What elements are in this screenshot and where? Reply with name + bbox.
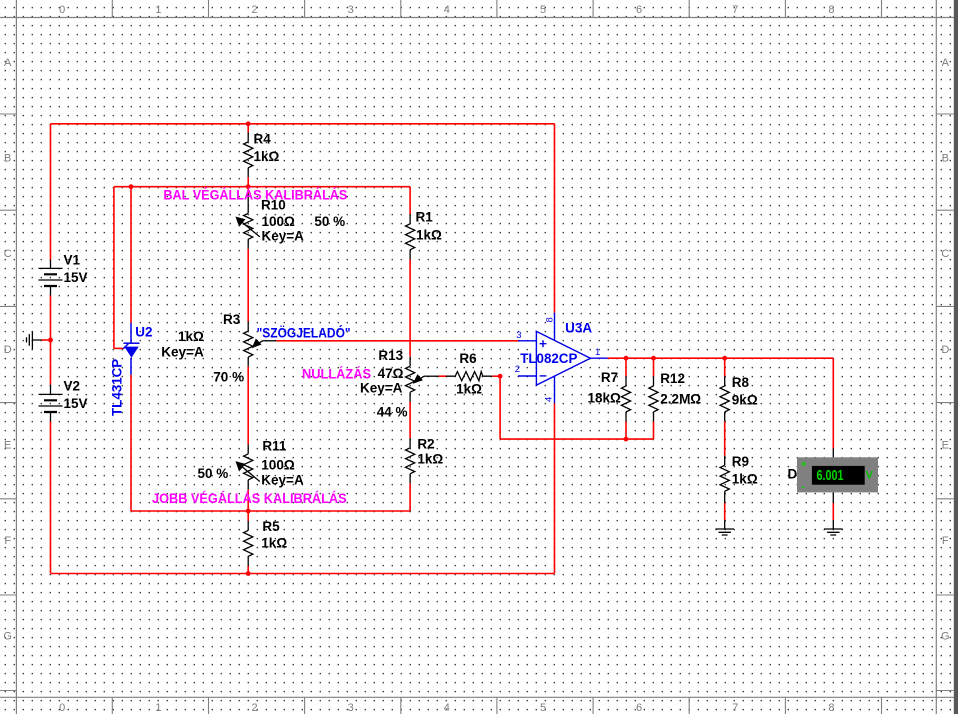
svg-text:4: 4 [444, 702, 450, 714]
svg-text:6: 6 [636, 4, 642, 16]
wire R10 top stub [247, 187, 249, 194]
svg-text:R5: R5 [262, 519, 280, 534]
svg-text:C: C [4, 248, 12, 260]
junction R4 top [246, 121, 251, 126]
svg-text:R11: R11 [262, 439, 287, 454]
multimeter XMM [797, 457, 878, 493]
svg-text:F: F [4, 535, 11, 547]
svg-text:0: 0 [59, 702, 65, 714]
svg-text:6.001: 6.001 [817, 468, 844, 484]
wire R7 top stub [625, 358, 627, 376]
svg-text:A: A [4, 57, 12, 69]
pin 4 stub [554, 376, 556, 403]
svg-text:R9: R9 [732, 454, 749, 469]
junction ground / left rail [48, 338, 53, 343]
svg-text:V1: V1 [64, 253, 81, 268]
potentiometer R3 [244, 322, 277, 367]
svg-text:7: 7 [732, 702, 738, 714]
wire R4 lower stub [247, 177, 249, 186]
wire R7 bottom stub [625, 421, 627, 439]
wire R12 top stub [653, 358, 655, 376]
op-amp U3A [515, 313, 608, 403]
svg-text:NULLÁZÁS: NULLÁZÁS [302, 367, 371, 382]
wire R1 to R13 [409, 259, 411, 356]
wire minus node feedback drop [499, 376, 501, 439]
svg-text:TL082CP: TL082CP [520, 351, 577, 366]
junction feedback / R7 bottom [624, 437, 629, 442]
svg-text:1kΩ: 1kΩ [254, 149, 280, 164]
svg-text:0: 0 [59, 4, 65, 16]
svg-text:8: 8 [544, 317, 555, 322]
svg-text:D: D [941, 344, 949, 356]
svg-text:R8: R8 [732, 375, 750, 390]
svg-text:15V: 15V [64, 396, 88, 411]
junction output / R8 [722, 356, 727, 361]
svg-text:U2: U2 [135, 325, 152, 340]
svg-text:8: 8 [828, 4, 834, 16]
svg-text:7: 7 [732, 4, 738, 16]
resistor R8 [720, 376, 729, 421]
svg-text:3: 3 [348, 4, 354, 16]
svg-text:V: V [866, 470, 874, 482]
junction R6 / minus input [498, 374, 503, 379]
svg-text:Key=A: Key=A [262, 229, 305, 244]
svg-text:R4: R4 [254, 132, 272, 147]
svg-text:E: E [4, 439, 11, 451]
svg-text:44 %: 44 % [377, 405, 408, 420]
svg-text:U3A: U3A [565, 321, 592, 336]
wire R13 to R2 [409, 402, 411, 439]
wire R5 top stub [247, 511, 249, 521]
ground under meter [824, 449, 843, 536]
wire meter drop [832, 358, 834, 448]
resistor R7 [621, 376, 630, 421]
svg-text:5: 5 [540, 4, 546, 16]
svg-text:C: C [941, 248, 949, 260]
wire R6 to minus node [492, 375, 500, 377]
svg-text:Key=A: Key=A [261, 473, 304, 488]
wire V2 to bottom rail [50, 421, 52, 573]
ground under R9 [715, 520, 734, 535]
junction U2 cathode / inner top [129, 184, 134, 189]
wire inner top edge [114, 186, 410, 188]
svg-text:F: F [942, 535, 949, 547]
svg-text:1kΩ: 1kΩ [416, 228, 442, 243]
svg-text:R13: R13 [378, 348, 403, 363]
potentiometer R11 [237, 444, 260, 489]
junction R11-R5 / inner bottom [246, 509, 251, 514]
svg-text:2: 2 [251, 702, 257, 714]
svg-text:1kΩ: 1kΩ [417, 452, 443, 467]
wire R4 upper stub [247, 124, 249, 133]
wire R13 wiper to R6 [439, 375, 447, 377]
wire R9 to ground [724, 503, 726, 520]
wire V1 to ground node [50, 295, 52, 384]
junction R4 / inner top [246, 184, 251, 189]
resistor R2 [406, 438, 415, 483]
junction output / R7 [624, 356, 629, 361]
svg-text:15V: 15V [64, 270, 88, 285]
svg-text:D: D [4, 344, 12, 356]
wire top supply rail [51, 123, 555, 125]
wire U2 anode drop [130, 375, 132, 511]
wire R8 to R9 [724, 421, 726, 455]
svg-text:2: 2 [251, 4, 257, 16]
pin 8 stub [554, 313, 556, 341]
pin 2 stub [518, 375, 536, 377]
svg-text:1kΩ: 1kΩ [456, 382, 482, 397]
svg-text:47Ω: 47Ω [378, 366, 404, 381]
svg-text:1kΩ: 1kΩ [178, 329, 204, 344]
svg-text:R2: R2 [417, 437, 434, 452]
TL431 U2 [123, 323, 139, 375]
svg-text:JOBB VÉGÁLLÁS KALIBRÁLÁS: JOBB VÉGÁLLÁS KALIBRÁLÁS [152, 491, 347, 506]
wire R8 top stub [724, 358, 726, 376]
ruler numbers top [59, 4, 834, 16]
svg-text:50 %: 50 % [314, 214, 345, 229]
svg-text:R6: R6 [459, 351, 477, 366]
svg-text:R3: R3 [223, 312, 241, 327]
ruler numbers bottom [59, 702, 834, 714]
battery V1 [39, 260, 63, 296]
svg-text:1kΩ: 1kΩ [261, 536, 287, 551]
svg-text:3: 3 [348, 702, 354, 714]
resistor R12 [649, 376, 658, 421]
ruler letters right [941, 57, 950, 643]
resistor R5 [244, 521, 253, 566]
svg-text:E: E [942, 439, 949, 451]
wire R3 to R11 [247, 366, 249, 444]
svg-text:B: B [942, 153, 949, 165]
potentiometer R13 [406, 357, 439, 402]
minus mark [540, 375, 547, 377]
wire inner bottom edge [131, 510, 410, 512]
wire R2 to inner bottom [409, 483, 411, 511]
op-amp triangle body [536, 331, 590, 385]
wire R1 top stub [409, 187, 411, 215]
potentiometer R10 [237, 194, 260, 249]
svg-text:+: + [801, 459, 807, 470]
svg-text:1kΩ: 1kΩ [732, 472, 758, 487]
svg-text:5: 5 [540, 702, 546, 714]
svg-text:2.2MΩ: 2.2MΩ [660, 392, 701, 407]
pin 1 stub [590, 357, 607, 359]
svg-text:Key=A: Key=A [360, 381, 403, 396]
wire op-amp output run [608, 357, 834, 359]
svg-text:Key=A: Key=A [161, 345, 204, 360]
meter body [797, 457, 878, 492]
svg-text:50 %: 50 % [198, 466, 229, 481]
ground left [27, 331, 42, 349]
resistor R6 (horizontal) [446, 372, 492, 381]
svg-text:"SZÖGJELADÓ": "SZÖGJELADÓ" [257, 326, 351, 341]
plus mark [540, 340, 547, 347]
svg-text:1: 1 [155, 4, 161, 16]
svg-text:-: - [801, 482, 804, 493]
pin 3 stub [518, 340, 536, 342]
svg-text:100Ω: 100Ω [262, 214, 296, 229]
svg-text:TL431CP: TL431CP [110, 359, 125, 416]
wire to U2 ref pin [114, 347, 123, 349]
svg-text:R1: R1 [416, 210, 434, 225]
junction R5 / bottom rail [246, 571, 251, 576]
svg-text:100Ω: 100Ω [261, 458, 295, 473]
svg-text:6: 6 [636, 702, 642, 714]
wire left rail upper (to V1) [50, 124, 52, 260]
meter display [812, 466, 865, 485]
resistor R1 [406, 214, 415, 259]
wire inner left edge [113, 187, 115, 349]
junction output / R12 [651, 356, 656, 361]
svg-text:V2: V2 [64, 379, 81, 394]
svg-text:R7: R7 [601, 370, 618, 385]
svg-text:G: G [3, 631, 12, 643]
svg-text:4: 4 [544, 397, 555, 402]
wire R5 bottom stub [247, 566, 249, 574]
svg-text:4: 4 [444, 4, 450, 16]
svg-text:70 %: 70 % [213, 370, 244, 385]
svg-text:1: 1 [155, 702, 161, 714]
wire R11 to inner bottom [247, 489, 249, 511]
wire R10 to R3 [247, 249, 249, 322]
svg-text:B: B [4, 153, 11, 165]
svg-text:R12: R12 [660, 371, 685, 386]
svg-text:G: G [941, 631, 950, 643]
resistor R9 [720, 456, 729, 503]
svg-text:A: A [942, 57, 950, 69]
wire feedback bottom run [500, 438, 653, 440]
svg-text:8: 8 [828, 702, 834, 714]
wire meter to ground [832, 503, 834, 520]
resistor R4 [244, 132, 253, 177]
battery V2 [39, 385, 63, 422]
window edge strip right [954, 0, 958, 714]
svg-text:9kΩ: 9kΩ [732, 393, 758, 408]
wire right rail to op-amp pin8 [554, 124, 556, 313]
wire op-amp pin4 to bottom rail [554, 403, 556, 573]
wire bottom supply rail [51, 573, 555, 575]
svg-text:18kΩ: 18kΩ [588, 391, 622, 406]
wire ground stub to left rail [42, 339, 51, 341]
svg-text:3: 3 [516, 330, 521, 341]
wire R12 bottom stub [653, 421, 655, 439]
svg-text:1: 1 [595, 347, 600, 358]
svg-text:BAL VÉGÁLLÁS KALIBRÁLÁS: BAL VÉGÁLLÁS KALIBRÁLÁS [163, 188, 347, 203]
wire R3 wiper to op-amp plus input [276, 340, 520, 342]
wire U2 cathode riser [130, 187, 132, 323]
U2 TL431 symbol [123, 323, 139, 375]
ruler letters left [3, 57, 12, 643]
